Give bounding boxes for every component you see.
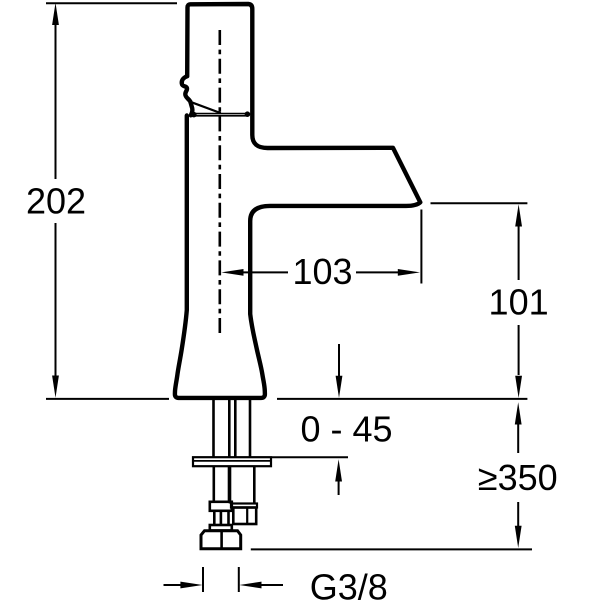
right fitting top band	[231, 504, 257, 508]
arrow down 202	[52, 376, 59, 398]
svg-text:G3/8: G3/8	[310, 567, 388, 600]
arrow up 0-45	[338, 480, 340, 495]
right supply tube	[230, 467, 254, 504]
left fitting middle section	[214, 511, 228, 525]
svg-text:101: 101	[489, 282, 549, 323]
flange mid line	[193, 460, 271, 462]
dimension line 101	[518, 225, 520, 375]
top extension line	[46, 2, 177, 4]
shank tubes below base	[214, 400, 251, 457]
faucet body outline	[175, 114, 420, 398]
base extension line left	[46, 398, 169, 400]
centerline	[219, 30, 222, 333]
svg-text:0 - 45: 0 - 45	[300, 409, 392, 450]
base extension line right	[277, 398, 527, 400]
hex nut	[201, 531, 241, 549]
dimension line 202	[55, 24, 57, 377]
arrow up 101	[515, 204, 522, 226]
arrow down >=350	[515, 526, 522, 548]
mounting flange	[193, 457, 271, 466]
G3/8 extension lines	[203, 567, 239, 592]
bottom extension line	[251, 548, 532, 550]
left fitting upper band	[210, 502, 232, 511]
dimension line 103	[239, 271, 402, 273]
spout tip horizontal extension line	[431, 202, 528, 204]
dimension line >=350	[517, 423, 519, 527]
right fitting inner line	[246, 508, 248, 525]
joint double line	[194, 114, 248, 116]
arrow right 103	[398, 269, 420, 276]
faucet handle (top section with lever bump)	[182, 4, 253, 115]
arrow down 0-45	[338, 344, 340, 378]
arrow up >=350	[515, 402, 522, 424]
svg-text:103: 103	[292, 251, 352, 292]
arrow up 202	[52, 3, 59, 25]
hex nut facet line	[220, 531, 223, 549]
right fitting body	[233, 508, 256, 525]
arrow down 101	[515, 376, 522, 398]
arrow left 103	[221, 269, 243, 276]
joint end blobs	[191, 112, 197, 118]
handle bottom diagonal line	[190, 102, 221, 113]
left fitting lower band	[210, 525, 232, 531]
svg-text:202: 202	[26, 181, 86, 222]
flange extension line	[272, 456, 348, 458]
arrow right G3/8	[164, 584, 185, 586]
arrow left G3/8	[258, 584, 283, 586]
svg-text:≥350: ≥350	[478, 457, 558, 498]
spout tip vertical extension line	[420, 210, 422, 284]
left supply tube	[214, 467, 229, 501]
